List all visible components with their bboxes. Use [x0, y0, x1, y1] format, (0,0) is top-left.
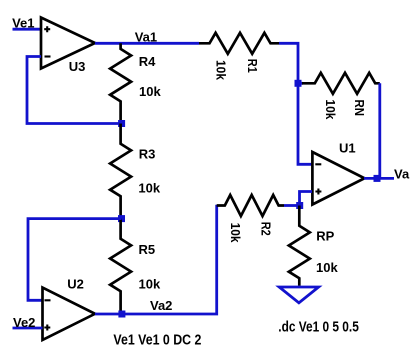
wire U3 feedback to node below R4: [27, 57, 122, 124]
wire U1 output Va: [364, 177, 394, 180]
svg-text:R2: R2: [259, 222, 274, 236]
svg-text:10k: 10k: [213, 60, 228, 81]
wire RN right to U1 output: [378, 83, 381, 178]
svg-text:RP: RP: [316, 229, 334, 244]
wire U2 output Va2 run to R2: [95, 205, 217, 314]
svg-text:Va: Va: [394, 166, 410, 181]
ground: [279, 287, 318, 303]
svg-text:R1: R1: [245, 59, 260, 73]
resistor R1: [199, 33, 279, 81]
junction node Va2: [118, 311, 125, 318]
resistor RN: [298, 73, 380, 120]
svg-text:RN: RN: [352, 100, 367, 117]
resistor R3: [110, 124, 161, 219]
svg-text:Ve2: Ve2: [13, 315, 35, 330]
svg-text:U2: U2: [67, 277, 84, 292]
svg-text:Va1: Va1: [135, 30, 157, 45]
svg-text:Ve1 Ve1 0 DC 2: Ve1 Ve1 0 DC 2: [113, 332, 201, 347]
op-amp U1: [312, 141, 364, 205]
op-amp U2: [43, 277, 96, 341]
junction node Va1/R4/feedback: [118, 120, 125, 127]
op-amp U3: [41, 18, 95, 75]
svg-text:R3: R3: [139, 147, 156, 162]
svg-text:R5: R5: [139, 242, 156, 257]
wire U2 feedback to node R3/R5: [28, 219, 122, 301]
svg-text:Va2: Va2: [150, 298, 172, 313]
junction node R1/RN: [295, 80, 302, 87]
wire Ve2 input: [13, 327, 43, 330]
resistor R4: [110, 43, 161, 120]
resistor R5: [110, 219, 161, 314]
svg-text:10k: 10k: [138, 180, 160, 195]
junction node R2/RP/U1+: [296, 202, 303, 209]
svg-text:.dc Ve1 0 5 0.5: .dc Ve1 0 5 0.5: [278, 319, 359, 335]
svg-text:10k: 10k: [323, 99, 338, 120]
svg-text:10k: 10k: [139, 277, 161, 292]
junction node R3/R5/U2 feedback: [118, 215, 125, 222]
svg-text:U3: U3: [69, 59, 86, 74]
svg-text:R4: R4: [139, 54, 156, 69]
svg-text:10k: 10k: [139, 84, 161, 99]
resistor RP: [289, 206, 339, 286]
wire R1 to U1 inverting input: [279, 43, 312, 164]
wire Ve1 input: [13, 28, 42, 31]
svg-text:10k: 10k: [316, 260, 338, 275]
wire U1 noninverting input: [300, 192, 313, 206]
junction node Va: [374, 175, 381, 182]
svg-text:10k: 10k: [228, 223, 243, 244]
wire U3 output Va1: [95, 42, 199, 45]
svg-text:U1: U1: [339, 141, 356, 156]
wire R2 to junction: [284, 204, 300, 207]
svg-text:Ve1: Ve1: [12, 16, 34, 31]
resistor R2: [217, 195, 284, 243]
